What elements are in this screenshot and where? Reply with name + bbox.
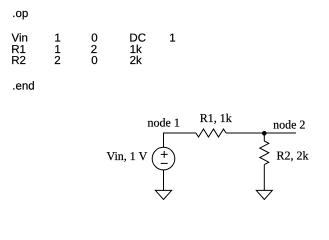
svg-text:.end: .end — [12, 81, 34, 93]
svg-text:2: 2 — [54, 55, 60, 67]
svg-text:R1, 1k: R1, 1k — [200, 111, 232, 125]
svg-text:1k: 1k — [130, 44, 142, 56]
svg-text:node 2: node 2 — [273, 118, 305, 132]
svg-text:2: 2 — [91, 44, 97, 56]
svg-text:1: 1 — [54, 32, 60, 44]
svg-text:R2: R2 — [11, 55, 26, 67]
svg-text:node 1: node 1 — [148, 116, 180, 130]
svg-text:0: 0 — [91, 32, 97, 44]
svg-text:2k: 2k — [130, 55, 142, 67]
svg-text:R2, 2k: R2, 2k — [277, 149, 309, 163]
svg-text:.op: .op — [12, 8, 28, 20]
svg-text:1: 1 — [169, 32, 175, 44]
svg-text:0: 0 — [91, 55, 97, 67]
svg-text:Vin: Vin — [12, 32, 28, 44]
svg-text:DC: DC — [129, 32, 146, 44]
svg-text:1: 1 — [54, 44, 60, 56]
svg-text:Vin, 1 V: Vin, 1 V — [107, 149, 148, 163]
svg-text:R1: R1 — [11, 44, 26, 56]
